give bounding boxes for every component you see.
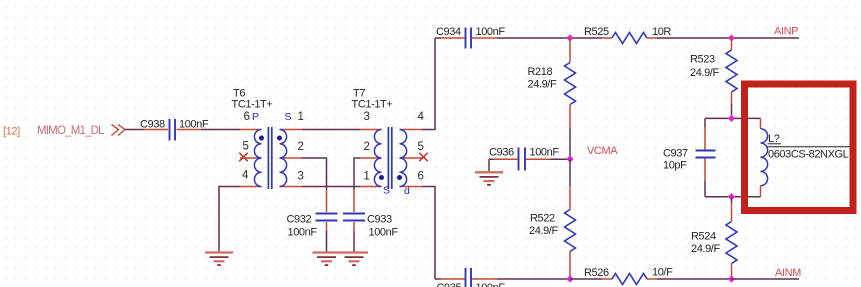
wire MIMO_M1_DL to C938	[125, 129, 144, 131]
svg-text:100nF: 100nF	[288, 227, 318, 239]
wire C934 to junction	[497, 37, 570, 39]
svg-text:AINP: AINP	[774, 26, 798, 38]
inductor L2	[761, 118, 852, 196]
svg-text:d: d	[404, 185, 410, 197]
wire T6 pin1 to T7 pin3	[302, 129, 360, 131]
wire junction to R525	[570, 37, 602, 39]
resistor R523	[690, 38, 737, 104]
wire R526 to junction	[657, 278, 732, 280]
svg-text:5: 5	[418, 141, 424, 153]
svg-text:100nF: 100nF	[476, 26, 506, 38]
capacitor C935	[437, 268, 506, 287]
wire T6 pin3 to T7 pin1	[302, 186, 360, 188]
svg-text:R526: R526	[584, 267, 609, 279]
svg-text:6: 6	[244, 111, 250, 123]
junction VCMA	[566, 155, 573, 162]
svg-text:3: 3	[298, 171, 304, 183]
svg-text:AINM: AINM	[775, 267, 801, 279]
svg-text:C938: C938	[140, 119, 165, 131]
capacitor C932	[287, 190, 338, 253]
capacitor C933	[343, 190, 398, 253]
svg-text:C932: C932	[287, 214, 312, 226]
junction loop top	[728, 115, 735, 122]
svg-text:R525: R525	[584, 26, 609, 38]
red highlight box around L2	[745, 84, 854, 211]
svg-text:4: 4	[242, 170, 249, 182]
svg-text:24.9/F: 24.9/F	[691, 243, 720, 255]
capacitor C934	[436, 26, 505, 49]
svg-text:100nF: 100nF	[530, 147, 560, 159]
ground symbol (C932)	[313, 253, 341, 266]
svg-text:C934: C934	[436, 26, 461, 38]
wire T7 pin6 down to bottom rail	[422, 187, 435, 280]
junction loop bottom	[728, 193, 735, 200]
capacitor C938	[140, 119, 209, 141]
wire R218 to VCMA junction	[569, 129, 571, 160]
svg-text:P: P	[252, 111, 259, 123]
wire top rail left	[435, 37, 441, 39]
svg-text:C936: C936	[489, 147, 514, 159]
wire T7 pin2 to C933	[354, 158, 360, 190]
wire C938 to T6 pin6	[201, 129, 240, 131]
junction top rail / R218	[566, 34, 573, 41]
wire VCMA junction to R522	[569, 159, 571, 186]
junction bottom rail / R524	[728, 275, 735, 282]
svg-text:2: 2	[298, 141, 304, 153]
wire junction to R526	[570, 278, 602, 280]
svg-text:TC1-1T+: TC1-1T+	[232, 99, 273, 111]
svg-text:5: 5	[243, 141, 249, 153]
svg-text:24.9/F: 24.9/F	[690, 67, 719, 79]
svg-text:4: 4	[418, 111, 425, 123]
svg-text:S: S	[285, 111, 292, 123]
ground symbol (T6 pin4)	[205, 253, 233, 266]
svg-text:24.9/F: 24.9/F	[528, 79, 557, 91]
svg-text:R218: R218	[528, 66, 553, 78]
wire C936 to VCMA junction	[551, 158, 570, 160]
svg-text:C937: C937	[663, 148, 688, 160]
svg-text:100nF: 100nF	[369, 227, 399, 239]
resistor R526	[584, 267, 673, 285]
resistor R522	[529, 186, 576, 280]
svg-text:R523: R523	[690, 54, 715, 66]
svg-text:0603CS-82NXGL: 0603CS-82NXGL	[768, 149, 849, 161]
resistor R525	[584, 26, 671, 44]
svg-text:C935: C935	[437, 282, 462, 287]
svg-text:2: 2	[364, 141, 370, 153]
ground symbol (C933)	[340, 253, 368, 266]
svg-text:100nF: 100nF	[476, 282, 506, 287]
wire L2/C937 loop top	[705, 117, 761, 119]
svg-text:VCMA: VCMA	[587, 145, 618, 157]
resistor R218	[528, 38, 576, 129]
svg-text:TC1-1T+: TC1-1T+	[352, 99, 393, 111]
off-page connector chevrons	[112, 125, 126, 136]
wire R525 to junction	[657, 37, 732, 39]
resistor R524	[691, 203, 737, 279]
ground symbol (C936)	[475, 172, 503, 185]
wire R523 to L2 network	[731, 104, 733, 118]
junction bottom rail / R522	[566, 275, 573, 282]
wire junction to AINM	[732, 278, 800, 280]
wire bottom rail left	[435, 278, 441, 280]
wire T7 pin4 up to top rail	[422, 38, 435, 130]
wire L2/C937 loop bottom	[705, 196, 761, 198]
svg-text:MIMO_M1_DL: MIMO_M1_DL	[37, 125, 105, 137]
svg-text:10pF: 10pF	[663, 160, 687, 172]
wire junction to AINP	[732, 37, 800, 39]
wire loop bottom to R524	[731, 197, 733, 203]
svg-text:R524: R524	[691, 231, 716, 243]
svg-text:1: 1	[298, 111, 304, 123]
transformer T6 TC1-1T+	[232, 88, 304, 190]
capacitor C936	[489, 147, 559, 173]
capacitor C937	[663, 118, 716, 196]
svg-text:10R: 10R	[652, 26, 671, 38]
junction top rail / R523	[728, 34, 735, 41]
svg-text:C933: C933	[367, 214, 392, 226]
svg-text:1: 1	[364, 171, 370, 183]
svg-text:24.9/F: 24.9/F	[529, 225, 558, 237]
svg-text:R522: R522	[530, 213, 555, 225]
svg-text:S: S	[383, 185, 390, 197]
svg-text:10/F: 10/F	[652, 267, 673, 279]
svg-text:L?: L?	[768, 133, 780, 145]
svg-text:100nF: 100nF	[179, 119, 209, 131]
wire C935 to junction	[497, 278, 570, 280]
svg-text:3: 3	[364, 111, 370, 123]
svg-text:6: 6	[418, 171, 424, 183]
transformer T7 TC1-1T+	[352, 88, 428, 198]
svg-text:[12]: [12]	[3, 126, 20, 138]
wire T6 pin4 to ground	[219, 187, 240, 253]
wire T6 pin2 to C932	[302, 158, 327, 190]
